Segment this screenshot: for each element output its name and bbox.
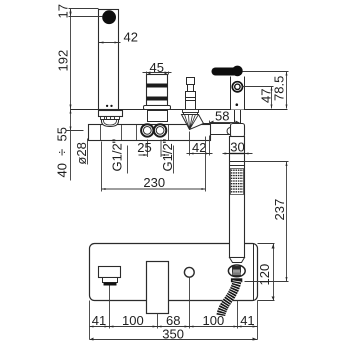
dimension 42 lower — [187, 132, 213, 156]
diverter funnel — [182, 115, 204, 130]
svg-text:30: 30 — [230, 140, 244, 155]
svg-text:45: 45 — [150, 60, 164, 75]
dimension 45 line — [143, 72, 172, 75]
dimension line 17/192 vertical — [70, 9, 72, 181]
dimension 120 — [273, 244, 275, 301]
dimension 17 ext line top — [69, 8, 99, 10]
svg-text:192: 192 — [56, 50, 71, 72]
ext hose nut right — [245, 281, 289, 283]
svg-text:58: 58 — [215, 109, 229, 124]
svg-text:100: 100 — [203, 313, 225, 328]
ext shower top right — [245, 161, 289, 163]
cartridge below-deck body — [148, 111, 168, 122]
svg-text:230: 230 — [143, 175, 165, 190]
svg-text:41: 41 — [240, 313, 254, 328]
svg-text:42: 42 — [192, 140, 206, 155]
spout outlet circle — [102, 10, 116, 24]
holder joint bulge — [227, 127, 230, 134]
dimension 230 — [102, 137, 206, 192]
holder dot — [236, 103, 239, 106]
arrow 17 bottom — [70, 13, 72, 17]
svg-text:41: 41 — [92, 313, 106, 328]
arrow 42 right — [115, 42, 119, 44]
dimension 58 — [210, 121, 240, 124]
spout column — [99, 10, 119, 110]
inlet circle left — [141, 124, 153, 136]
spout mouth cup — [102, 120, 119, 127]
dimension 30 — [223, 153, 253, 155]
spout flange — [99, 111, 123, 117]
holder ring nut — [232, 82, 242, 92]
cartridge column — [147, 75, 168, 106]
dimension 40-55 ext — [67, 130, 84, 132]
ext lever right — [243, 71, 289, 73]
svg-text:40 ÷ 55: 40 ÷ 55 — [55, 127, 70, 178]
bottom dim chain line — [90, 326, 258, 328]
ext ring right — [243, 86, 274, 88]
flange ribs — [101, 117, 105, 120]
spout mouth cup inner — [104, 120, 117, 126]
dimension 350 — [90, 339, 258, 341]
arrow 192 bottom — [70, 105, 72, 110]
cartridge dark band 1 — [147, 84, 168, 88]
plan body ext — [157, 314, 159, 329]
svg-text:G1/2": G1/2" — [160, 138, 175, 171]
arrow 42 left — [99, 42, 104, 44]
ext 120 top — [258, 243, 275, 245]
arm to holder — [204, 124, 231, 141]
svg-text:42: 42 — [124, 30, 138, 45]
bar joint lines — [101, 125, 169, 141]
cartridge base flange — [144, 106, 171, 110]
hose — [231, 278, 242, 282]
hand shower taper — [230, 258, 245, 263]
dimension 17 ext line bottom — [69, 16, 103, 18]
svg-text:237: 237 — [272, 199, 287, 221]
diverter column — [186, 92, 196, 110]
hand shower knurled grip — [231, 169, 244, 195]
phi28 underline — [87, 139, 89, 165]
plate left ext — [89, 301, 91, 340]
holder neck below deck — [235, 110, 241, 124]
inlet circle right — [154, 124, 166, 136]
holder column — [231, 77, 245, 110]
svg-text:G1/2": G1/2" — [110, 138, 125, 171]
cartridge dark band 2 — [147, 97, 168, 101]
deck line — [71, 109, 288, 111]
plan spout — [99, 267, 121, 278]
dimension 25 — [139, 140, 170, 158]
holder block — [231, 124, 245, 138]
plate inner right edge line — [253, 244, 255, 301]
dimension 47 — [271, 87, 273, 109]
dimension 237 — [286, 162, 288, 282]
lever handle — [212, 68, 243, 76]
diverter knob cap — [187, 78, 195, 85]
arrow 17 top — [70, 9, 72, 13]
svg-text:100: 100 — [122, 313, 144, 328]
plan body rect — [147, 262, 169, 314]
svg-text:ø28: ø28 — [74, 142, 89, 164]
svg-text:78.5: 78.5 — [272, 76, 287, 101]
ext 120 bottom — [258, 300, 275, 302]
G1/2 right underline — [173, 146, 175, 174]
svg-text:120: 120 — [257, 264, 272, 286]
spout aerator screws — [106, 105, 108, 107]
plate right ext — [257, 301, 259, 340]
hose nut — [228, 265, 245, 277]
G1/2 left underline — [127, 146, 129, 174]
diverter collar — [183, 110, 199, 113]
svg-text:17: 17 — [56, 4, 71, 18]
dimension 42 spout line — [99, 42, 121, 44]
plan holder ext — [237, 301, 239, 329]
chain arrows — [90, 326, 258, 328]
dimension 40-55 arrows — [70, 110, 72, 114]
plan spout ext — [109, 286, 111, 329]
diverter knob stem — [188, 85, 194, 92]
plan plate — [90, 244, 258, 301]
svg-text:350: 350 — [162, 326, 184, 341]
plan knob circle — [184, 267, 194, 277]
dimension 78.5 — [286, 72, 288, 109]
arrow 45 right — [165, 72, 169, 75]
below-deck bar body — [89, 125, 211, 141]
arrow 45 left — [147, 72, 151, 75]
plan knob ext — [189, 278, 191, 329]
svg-text:25: 25 — [137, 140, 151, 155]
hand shower body — [230, 137, 245, 258]
